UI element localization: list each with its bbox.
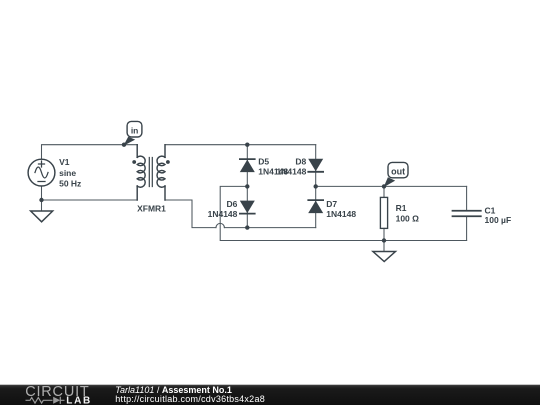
- svg-text:in: in: [131, 126, 139, 136]
- svg-text:D6: D6: [227, 199, 238, 209]
- svg-text:100 Ω: 100 Ω: [396, 214, 420, 224]
- svg-text:LAB: LAB: [66, 395, 92, 405]
- svg-text:1N4148: 1N4148: [277, 167, 307, 177]
- svg-text:D8: D8: [295, 157, 306, 167]
- svg-text:D7: D7: [326, 199, 337, 209]
- svg-text:http://circuitlab.com/cdv36tbs: http://circuitlab.com/cdv36tbs4x2a8: [115, 394, 265, 404]
- svg-text:R1: R1: [396, 203, 407, 213]
- svg-text:1N4148: 1N4148: [326, 209, 356, 219]
- svg-text:1N4148: 1N4148: [208, 209, 238, 219]
- svg-text:D5: D5: [258, 157, 269, 167]
- svg-text:V1: V1: [59, 157, 70, 167]
- svg-text:out: out: [391, 167, 405, 177]
- svg-text:XFMR1: XFMR1: [137, 204, 166, 214]
- svg-text:sine: sine: [59, 168, 76, 178]
- svg-text:C1: C1: [485, 206, 496, 216]
- svg-text:50 Hz: 50 Hz: [59, 179, 81, 189]
- svg-text:100 µF: 100 µF: [485, 215, 512, 225]
